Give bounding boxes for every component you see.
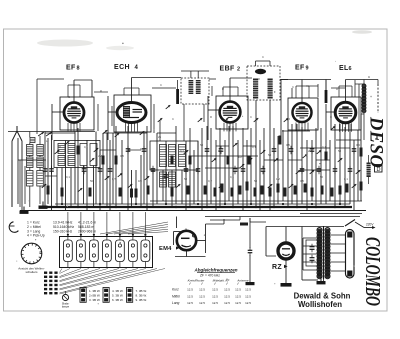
svg-text:2M: 2M bbox=[308, 149, 313, 153]
svg-text:C: C bbox=[262, 55, 264, 59]
svg-text:50: 50 bbox=[58, 145, 62, 149]
svg-text:12.5: 12.5 bbox=[224, 287, 230, 291]
svg-text:Dewald & Sohn: Dewald & Sohn bbox=[294, 292, 351, 301]
svg-text:0,1: 0,1 bbox=[66, 175, 70, 179]
svg-text:0,5: 0,5 bbox=[286, 143, 290, 147]
svg-text:Mittel: Mittel bbox=[172, 294, 180, 298]
svg-text:Lang: Lang bbox=[172, 301, 180, 305]
svg-text:50: 50 bbox=[200, 143, 204, 147]
svg-text:12.5: 12.5 bbox=[199, 287, 205, 291]
svg-text:C: C bbox=[292, 85, 294, 89]
svg-text:EBF: EBF bbox=[220, 66, 236, 73]
svg-text:Wollishofen: Wollishofen bbox=[298, 300, 342, 309]
svg-text:Kurz: Kurz bbox=[172, 287, 179, 291]
svg-text:50: 50 bbox=[254, 179, 258, 183]
svg-text:EM4: EM4 bbox=[159, 246, 172, 252]
svg-text:0,5: 0,5 bbox=[112, 177, 116, 181]
svg-text:9: 9 bbox=[306, 66, 309, 72]
svg-text:12.5: 12.5 bbox=[235, 301, 241, 305]
svg-text:510-1640 kHz: 510-1640 kHz bbox=[53, 225, 74, 229]
svg-text:0,1: 0,1 bbox=[230, 175, 234, 179]
svg-text:R: R bbox=[336, 87, 338, 91]
svg-text:1 = Kurz: 1 = Kurz bbox=[27, 221, 40, 225]
svg-text:2 = Mittel: 2 = Mittel bbox=[27, 225, 41, 229]
svg-text:C: C bbox=[160, 83, 162, 87]
svg-text:ECH: ECH bbox=[114, 64, 130, 71]
svg-text:0,1: 0,1 bbox=[322, 145, 326, 149]
svg-text:1M: 1M bbox=[140, 147, 145, 151]
svg-text:12.5: 12.5 bbox=[187, 301, 193, 305]
svg-text:+: + bbox=[370, 95, 372, 99]
svg-text:12.5: 12.5 bbox=[212, 301, 218, 305]
svg-text:12.5: 12.5 bbox=[245, 301, 251, 305]
svg-text:R: R bbox=[210, 115, 212, 119]
svg-text:12.5: 12.5 bbox=[224, 301, 230, 305]
svg-text:0,1: 0,1 bbox=[162, 175, 166, 179]
svg-text:2M: 2M bbox=[98, 154, 103, 158]
svg-text:12.5: 12.5 bbox=[224, 294, 230, 298]
svg-text:2: 2 bbox=[237, 67, 240, 73]
svg-text:3 = Lang: 3 = Lang bbox=[27, 229, 40, 233]
svg-text:R: R bbox=[288, 117, 290, 121]
svg-text:12.5: 12.5 bbox=[187, 287, 193, 291]
svg-text:1M: 1M bbox=[276, 177, 281, 181]
svg-text:EL: EL bbox=[339, 65, 349, 72]
svg-text:8. 3B W.: 8. 3B W. bbox=[136, 294, 148, 298]
svg-text:schalters: schalters bbox=[25, 270, 38, 274]
svg-text:0,5: 0,5 bbox=[120, 154, 124, 158]
svg-text:C: C bbox=[250, 115, 252, 119]
svg-text:4 = Pick-Up: 4 = Pick-Up bbox=[27, 234, 45, 238]
svg-text:D: D bbox=[377, 167, 381, 173]
svg-text:12.5: 12.5 bbox=[235, 287, 241, 291]
svg-text:150-310 kHz: 150-310 kHz bbox=[53, 229, 73, 233]
svg-text:13.9-41 MHz: 13.9-41 MHz bbox=[53, 221, 73, 225]
svg-text:1M: 1M bbox=[138, 179, 143, 183]
svg-text:RZ: RZ bbox=[272, 264, 282, 271]
svg-text:12.5: 12.5 bbox=[245, 294, 251, 298]
svg-text:0,5: 0,5 bbox=[300, 179, 304, 183]
svg-text:12.5: 12.5 bbox=[199, 294, 205, 298]
svg-text:50: 50 bbox=[338, 149, 342, 153]
svg-text:12.5: 12.5 bbox=[235, 294, 241, 298]
svg-text:50: 50 bbox=[90, 179, 94, 183]
svg-text:5. 3B W.: 5. 3B W. bbox=[112, 294, 124, 298]
svg-text:C: C bbox=[330, 115, 332, 119]
svg-text:lampe: lampe bbox=[62, 305, 70, 309]
svg-text:EF: EF bbox=[295, 65, 305, 72]
svg-text:0,3: 0,3 bbox=[356, 143, 360, 147]
svg-text:R: R bbox=[100, 89, 102, 93]
svg-text:4. 3B W.: 4. 3B W. bbox=[112, 289, 124, 293]
svg-text:12.5: 12.5 bbox=[187, 294, 193, 298]
svg-text:12.5: 12.5 bbox=[245, 287, 251, 291]
svg-text:0,1: 0,1 bbox=[84, 145, 88, 149]
svg-text:COLOMBO: COLOMBO bbox=[361, 237, 385, 306]
svg-text:Abgleichfrequenzen: Abgleichfrequenzen bbox=[193, 268, 237, 273]
svg-text:7. 3B W.: 7. 3B W. bbox=[136, 289, 148, 293]
svg-text:50: 50 bbox=[268, 153, 272, 157]
svg-text:0,1: 0,1 bbox=[252, 145, 256, 149]
svg-text:6. 3B W.: 6. 3B W. bbox=[112, 298, 124, 302]
svg-text:3. 3B W.: 3. 3B W. bbox=[89, 298, 101, 302]
svg-text:588-183 m: 588-183 m bbox=[78, 225, 94, 229]
svg-text:25: 25 bbox=[158, 135, 162, 139]
svg-text:12.5: 12.5 bbox=[212, 287, 218, 291]
svg-text:C: C bbox=[172, 117, 174, 121]
svg-text:0,1: 0,1 bbox=[180, 149, 184, 153]
svg-text:8: 8 bbox=[77, 66, 80, 72]
svg-text:50: 50 bbox=[184, 177, 188, 181]
svg-text:R: R bbox=[222, 87, 224, 91]
svg-text:EF: EF bbox=[66, 65, 76, 72]
svg-text:0,1: 0,1 bbox=[344, 177, 348, 181]
svg-text:2. 3B W.: 2. 3B W. bbox=[89, 294, 101, 298]
svg-text:50: 50 bbox=[320, 175, 324, 179]
svg-text:6: 6 bbox=[349, 66, 352, 72]
svg-text:C: C bbox=[68, 95, 70, 99]
svg-text:1M: 1M bbox=[238, 155, 243, 159]
svg-text:ZF = 470 kHz: ZF = 470 kHz bbox=[200, 274, 220, 278]
svg-text:9. 3B W.: 9. 3B W. bbox=[136, 298, 148, 302]
svg-text:0,2: 0,2 bbox=[208, 179, 212, 183]
svg-text:1. 3B W.: 1. 3B W. bbox=[89, 289, 101, 293]
svg-text:0,2: 0,2 bbox=[218, 149, 222, 153]
svg-text:12.5: 12.5 bbox=[212, 294, 218, 298]
svg-text:12.5: 12.5 bbox=[199, 301, 205, 305]
svg-text:220V: 220V bbox=[366, 223, 374, 227]
